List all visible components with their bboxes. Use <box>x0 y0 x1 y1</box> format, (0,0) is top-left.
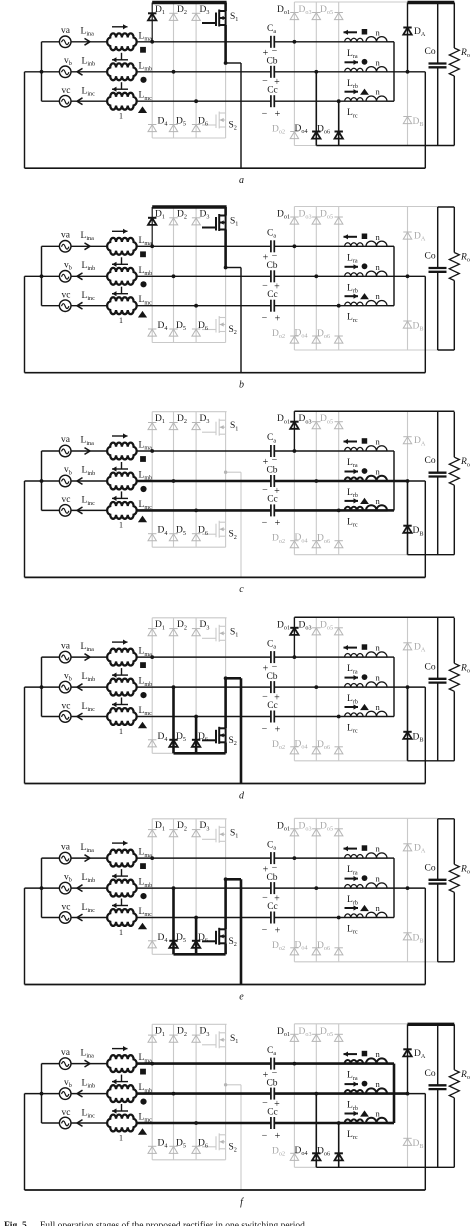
svg-text:va: va <box>61 231 71 241</box>
svg-text:−: − <box>272 1068 278 1079</box>
svg-text:va: va <box>61 435 71 445</box>
svg-text:−: − <box>262 925 268 936</box>
svg-text:Co: Co <box>425 1069 436 1079</box>
svg-text:vc: vc <box>62 902 71 912</box>
svg-text:Cc: Cc <box>267 701 278 711</box>
svg-text:vc: vc <box>62 495 71 505</box>
svg-text:Co: Co <box>425 456 436 466</box>
svg-text:va: va <box>61 641 71 651</box>
svg-text:−: − <box>262 1130 268 1141</box>
svg-text:Full operation stages of the p: Full operation stages of the proposed re… <box>40 1220 305 1226</box>
svg-text:−: − <box>272 661 278 672</box>
svg-text:vc: vc <box>62 701 71 711</box>
svg-text:e: e <box>239 991 244 1002</box>
svg-text:−: − <box>262 518 268 529</box>
svg-text:−: − <box>272 46 278 57</box>
svg-text:Co: Co <box>425 47 436 57</box>
svg-text:vc: vc <box>62 1108 71 1118</box>
svg-text:b: b <box>239 380 244 391</box>
svg-text:1: 1 <box>119 112 123 121</box>
svg-text:1: 1 <box>119 521 123 530</box>
svg-text:−: − <box>272 251 278 262</box>
svg-text:1: 1 <box>119 727 123 736</box>
svg-text:Cb: Cb <box>266 672 277 682</box>
svg-text:+: + <box>275 724 281 735</box>
svg-text:−: − <box>272 862 278 873</box>
svg-text:−: − <box>262 313 268 324</box>
svg-text:Cc: Cc <box>267 902 278 912</box>
svg-text:Cc: Cc <box>267 290 278 300</box>
svg-text:va: va <box>61 26 71 36</box>
svg-text:−: − <box>262 724 268 735</box>
svg-text:Cc: Cc <box>267 86 278 96</box>
svg-text:Cb: Cb <box>266 466 277 476</box>
svg-text:+: + <box>275 314 281 325</box>
svg-text:c: c <box>239 584 244 595</box>
svg-text:va: va <box>61 842 71 852</box>
svg-text:Cb: Cb <box>266 873 277 883</box>
svg-text:+: + <box>275 518 281 529</box>
svg-text:Co: Co <box>425 662 436 672</box>
svg-text:a: a <box>239 175 244 186</box>
svg-text:1: 1 <box>119 1133 123 1142</box>
svg-text:−: − <box>272 455 278 466</box>
svg-text:Co: Co <box>425 863 436 873</box>
svg-text:Fig. 5: Fig. 5 <box>4 1221 27 1226</box>
svg-text:Cb: Cb <box>266 261 277 271</box>
svg-text:+: + <box>275 109 281 120</box>
svg-text:1: 1 <box>119 316 123 325</box>
svg-text:+: + <box>275 925 281 936</box>
svg-text:1: 1 <box>119 928 123 937</box>
svg-text:Cc: Cc <box>267 495 278 505</box>
svg-text:Cc: Cc <box>267 1107 278 1117</box>
svg-text:+: + <box>275 1131 281 1142</box>
svg-text:Cb: Cb <box>266 1078 277 1088</box>
svg-text:va: va <box>61 1048 71 1058</box>
svg-text:Cb: Cb <box>266 57 277 67</box>
svg-text:vc: vc <box>62 291 71 301</box>
svg-text:vc: vc <box>62 86 71 96</box>
svg-text:−: − <box>262 109 268 120</box>
svg-text:Co: Co <box>425 252 436 262</box>
